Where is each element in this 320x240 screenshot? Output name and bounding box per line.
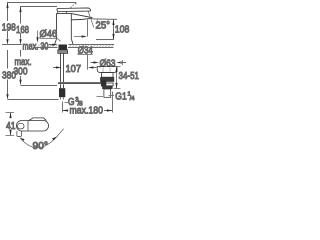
dim 107 [53, 67, 58, 69]
lever blade [57, 8, 91, 12]
svg-text:Ø63: Ø63 [100, 58, 116, 69]
ref line 380 bottom (hose end) [8, 99, 59, 101]
svg-text:G1: G1 [115, 92, 127, 103]
arrow 198 down at deck [6, 39, 8, 45]
top view capsule [17, 121, 49, 132]
arrow 380 down at hose end [6, 94, 8, 100]
ref line 168 top [20, 6, 57, 8]
top view lever bump [29, 118, 47, 121]
waste tailpipe [104, 89, 111, 97]
dim 34-51 [114, 66, 121, 68]
ref line max300 bottom [21, 85, 58, 87]
faucet body top [57, 13, 72, 15]
top view inner capsule (spout tip) [18, 123, 24, 129]
max30 leader arrow [50, 44, 54, 46]
rod knob [101, 80, 106, 86]
waste dark band [102, 86, 113, 89]
svg-text:max. 30: max. 30 [23, 41, 49, 52]
svg-text:107: 107 [66, 64, 82, 75]
top view seam [27, 121, 29, 131]
G3/8 leader [65, 102, 69, 104]
base flare right [72, 40, 74, 45]
046 leader arrow [37, 31, 39, 38]
svg-text:/4: /4 [130, 96, 136, 102]
svg-text:25°: 25° [96, 20, 111, 31]
stud/hose lines [61, 53, 64, 88]
reach leader arrow at y36.5 [74, 36, 82, 38]
svg-text:max.180: max.180 [70, 106, 104, 117]
90 deg arc [20, 137, 57, 148]
107 right extension [87, 55, 89, 70]
90 deg radial [57, 129, 64, 137]
spout beak bottom [71, 18, 92, 20]
waste collar (thread) [100, 77, 114, 82]
deck bottom line [33, 47, 58, 49]
spout tip extension line upper [87, 20, 89, 37]
G1 1/4 label [109, 95, 115, 97]
svg-text:198: 198 [2, 23, 16, 34]
034 underline [78, 54, 93, 56]
arrow 198 up [6, 3, 8, 9]
dim 063 [91, 62, 96, 64]
lever boss lines [57, 12, 59, 14]
svg-text:41: 41 [6, 121, 16, 132]
pop-up rod [58, 82, 102, 84]
dim max180 [62, 102, 64, 113]
lever raised phantom line (dashed) [70, 3, 76, 8]
shank dark block [59, 45, 68, 50]
waste neck [101, 73, 113, 78]
svg-text:Ø34: Ø34 [78, 46, 93, 57]
waste flange [97, 67, 117, 73]
ref line end tick [75, 3, 77, 5]
dim line 168 / max300 vertical [20, 7, 22, 24]
25 deg arc [96, 20, 99, 22]
dim line 198 vertical [7, 3, 9, 22]
arrow 168 up [19, 7, 21, 13]
svg-text:300: 300 [14, 67, 28, 78]
dim 108 vertical [113, 19, 115, 39]
hose end block G3/8 [59, 88, 65, 97]
deck hatch [34, 45, 113, 48]
base flare left [55, 40, 57, 45]
svg-text:90°: 90° [33, 141, 49, 152]
ref line 108 bottom [96, 39, 114, 41]
faucet body left side [56, 14, 58, 40]
svg-text:108: 108 [115, 25, 130, 36]
faucet body right side [70, 14, 72, 40]
svg-text:34-51: 34-51 [119, 71, 140, 82]
top view tab below [17, 131, 22, 137]
nut [58, 50, 68, 54]
deck top line [2, 44, 22, 46]
046 underline [40, 38, 58, 40]
spout beak top [71, 14, 92, 18]
arrow max300 down [19, 80, 21, 86]
25 deg leader (lever axis line) [88, 10, 94, 27]
tailpipe bottom tick [97, 96, 104, 98]
dim 41 [6, 112, 15, 114]
ref line 198 top [7, 2, 76, 4]
svg-text:168: 168 [16, 25, 29, 36]
spout ref line (outlet height) [92, 18, 117, 21]
arrow 168 down at deck [19, 39, 21, 45]
waste lower body [102, 83, 114, 86]
